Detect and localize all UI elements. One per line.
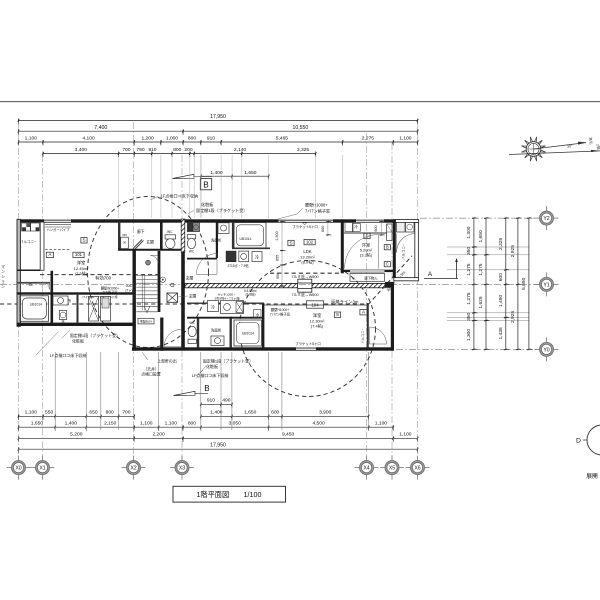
fire line circle left xyxy=(88,197,209,348)
svg-text:(7.4帖): (7.4帖) xyxy=(311,323,324,329)
svg-text:展開: 展開 xyxy=(586,473,598,480)
balcony 104 xyxy=(361,327,387,344)
svg-text:点検口設置: 点検口設置 xyxy=(141,372,161,377)
bath 104 xyxy=(234,320,262,346)
grid centerlines X xyxy=(19,122,418,459)
svg-text:洗面所: 洗面所 xyxy=(211,238,222,243)
svg-text:固定棚1段（ブラケット受）: 固定棚1段（ブラケット受） xyxy=(203,358,253,364)
svg-text:ブラケット5ヶ口: ブラケット5ヶ口 xyxy=(292,224,318,229)
section arrow B bottom xyxy=(174,391,209,395)
bottom dimension rowC xyxy=(18,432,419,442)
kitchen 101 lower xyxy=(160,277,188,302)
entry 102 xyxy=(186,254,217,281)
label senmenjo 102 xyxy=(211,238,222,243)
section mark B bottom xyxy=(204,384,210,393)
svg-text:790: 790 xyxy=(136,147,144,153)
svg-text:650: 650 xyxy=(89,410,97,416)
svg-text:1,100: 1,100 xyxy=(140,421,153,427)
svg-text:1,650: 1,650 xyxy=(31,421,44,427)
svg-text:2,325: 2,325 xyxy=(498,238,504,251)
svg-text:上部軒の出: 上部軒の出 xyxy=(157,359,177,364)
fridge 104b xyxy=(254,310,262,318)
svg-text:固定棚1段（ブラケット受）: 固定棚1段（ブラケット受） xyxy=(70,332,120,338)
svg-text:700: 700 xyxy=(122,147,130,153)
callout hatch top-center xyxy=(150,193,247,214)
room 101 labels xyxy=(46,238,89,276)
svg-text:B: B xyxy=(203,181,209,190)
svg-text:800: 800 xyxy=(173,147,181,153)
svg-text:B: B xyxy=(204,384,210,393)
svg-text:1,275: 1,275 xyxy=(478,263,484,276)
svg-text:2,150: 2,150 xyxy=(104,421,117,427)
svg-text:9,450: 9,450 xyxy=(282,432,295,438)
svg-text:バルコニ−: バルコニ− xyxy=(361,328,365,343)
svg-text:(7ヶ)200 ・7ミ4・7 5ヶ施: (7ヶ)200 ・7ミ4・7 5ヶ施 xyxy=(82,294,117,299)
svg-text:(7ヶ): (7ヶ) xyxy=(125,289,132,293)
svg-text:延焼ライン3m: 延焼ライン3m xyxy=(331,299,359,306)
svg-text:1,300: 1,300 xyxy=(466,226,472,239)
toilet 101 xyxy=(165,230,175,249)
top dimension row4 xyxy=(42,147,316,157)
svg-text:固定棚1段（ブラケット受）: 固定棚1段（ブラケット受） xyxy=(196,207,247,213)
svg-text:1,100: 1,100 xyxy=(25,136,38,142)
callouts bottom-left xyxy=(36,330,120,358)
svg-text:宅配BOX: 宅配BOX xyxy=(140,319,152,324)
svg-text:ン: ン xyxy=(1,270,5,274)
svg-text:7ルミ庇→W600: 7ルミ庇→W600 xyxy=(291,292,318,297)
svg-text:C: C xyxy=(386,262,389,267)
svg-text:(3.2帖): (3.2帖) xyxy=(360,252,373,258)
svg-text:1,200: 1,200 xyxy=(141,136,154,142)
bottom dimension rowA right xyxy=(200,410,369,420)
neighbour text xyxy=(1,264,5,289)
section mark B top xyxy=(200,179,211,190)
svg-text:600: 600 xyxy=(321,226,325,232)
svg-text:5,465: 5,465 xyxy=(276,136,289,142)
svg-text:X2: X2 xyxy=(130,466,136,472)
svg-text:950: 950 xyxy=(276,273,280,279)
callout 104 hatch xyxy=(192,366,229,378)
svg-text:3,400: 3,400 xyxy=(75,147,88,153)
svg-text:7バ7ン格子窓: 7バ7ン格子窓 xyxy=(305,208,330,214)
svg-text:LDK: LDK xyxy=(303,249,311,254)
label tenkai xyxy=(586,473,598,480)
svg-text:洗面所: 洗面所 xyxy=(211,328,222,333)
svg-text:1,650: 1,650 xyxy=(244,410,257,416)
svg-text:2列3列4・7 5ヶ施: 2列3列4・7 5ヶ施 xyxy=(215,295,240,300)
right dim chain1 xyxy=(466,217,477,350)
svg-text:冷: 冷 xyxy=(256,312,260,317)
svg-text:600: 600 xyxy=(374,225,378,231)
drawing frame top border line xyxy=(0,101,600,103)
svg-text:2,200: 2,200 xyxy=(152,432,165,438)
balcony label 101 xyxy=(20,240,36,244)
door arc 104 entry xyxy=(164,329,182,347)
svg-text:WC: WC xyxy=(189,321,195,325)
svg-text:1,100: 1,100 xyxy=(25,410,38,416)
svg-text:1,625: 1,625 xyxy=(478,296,484,309)
staircase xyxy=(136,256,158,313)
svg-text:化粧板: 化粧板 xyxy=(72,337,84,343)
svg-text:7ルミ庇→W600: 7ルミ庇→W600 xyxy=(291,274,318,279)
bottom dimension 17950 xyxy=(18,442,419,452)
svg-text:700: 700 xyxy=(122,410,130,416)
toilet 104 xyxy=(188,321,196,343)
central wall xyxy=(181,219,185,349)
svg-text:Y1: Y1 xyxy=(543,283,549,289)
svg-text:5,850: 5,850 xyxy=(521,277,527,290)
svg-text:WC: WC xyxy=(189,250,195,254)
103 dim 600 xyxy=(374,221,384,236)
section arrow B top xyxy=(173,174,213,178)
svg-text:X5: X5 xyxy=(389,466,395,472)
svg-text:X0: X0 xyxy=(15,466,21,472)
svg-text:Y2: Y2 xyxy=(543,216,549,222)
svg-text:CL: CL xyxy=(352,277,356,281)
svg-text:X1: X1 xyxy=(39,466,45,472)
svg-text:10,550: 10,550 xyxy=(292,125,308,131)
svg-text:3,900: 3,900 xyxy=(319,410,332,416)
svg-text:1,000: 1,000 xyxy=(166,136,179,142)
room 102 labels xyxy=(288,224,318,265)
north arrow symbol xyxy=(509,137,600,161)
svg-text:1,300: 1,300 xyxy=(466,329,472,342)
svg-text:腰壁H1000+: 腰壁H1000+ xyxy=(271,307,289,312)
svg-text:(7.5帖): (7.5帖) xyxy=(75,270,88,276)
svg-text:1,435: 1,435 xyxy=(498,327,504,340)
svg-text:200: 200 xyxy=(184,147,192,153)
label awning xyxy=(291,274,318,279)
svg-text:D: D xyxy=(576,437,581,444)
svg-text:4,100: 4,100 xyxy=(82,136,95,142)
svg-text:A: A xyxy=(428,271,433,278)
title box xyxy=(173,486,286,502)
right dim chain5 xyxy=(521,217,532,350)
svg-text:冷: 冷 xyxy=(354,224,358,229)
bottom wall window xyxy=(296,348,316,351)
top dimension 17950 xyxy=(18,114,419,124)
svg-text:1,400: 1,400 xyxy=(65,421,78,427)
svg-text:1,650: 1,650 xyxy=(244,170,257,176)
bath 102 xyxy=(234,223,266,249)
svg-text:101: 101 xyxy=(75,252,83,257)
callouts bottom-center xyxy=(141,352,253,377)
interior walls xyxy=(17,219,396,348)
entry 101 xyxy=(121,229,154,250)
entry 104 xyxy=(189,293,197,298)
laundry dark boxes xyxy=(22,223,40,231)
svg-text:2,275: 2,275 xyxy=(362,136,375,142)
outer walls xyxy=(17,219,419,350)
svg-text:600: 600 xyxy=(271,410,279,416)
bottom extension lines xyxy=(55,352,368,430)
bottom dimension rowA left xyxy=(18,410,135,420)
right dim chain2 xyxy=(478,217,489,350)
svg-text:17,950: 17,950 xyxy=(210,442,226,448)
svg-text:2715ボ・7.9帖: 2715ボ・7.9帖 xyxy=(227,263,249,268)
svg-text:ハンガーパイプ: ハンガーパイプ xyxy=(46,227,70,232)
svg-text:UB1014: UB1014 xyxy=(242,332,254,336)
svg-text:バルコニ−: バルコニ− xyxy=(20,240,36,244)
svg-text:WC: WC xyxy=(167,230,173,234)
svg-text:910: 910 xyxy=(148,147,156,153)
svg-text:350: 350 xyxy=(466,247,472,255)
svg-text:800: 800 xyxy=(106,410,114,416)
bottom dimension rowB xyxy=(18,421,394,431)
svg-text:S: S xyxy=(336,312,339,317)
svg-text:655: 655 xyxy=(276,255,280,261)
svg-text:UB1014: UB1014 xyxy=(30,302,42,306)
svg-text:冷: 冷 xyxy=(255,255,259,260)
svg-text:廊下物入: 廊下物入 xyxy=(364,276,378,281)
svg-text:7,400: 7,400 xyxy=(94,125,107,131)
svg-text:S: S xyxy=(82,238,85,243)
top dimension 1400 1650 xyxy=(200,170,269,180)
svg-text:2,925: 2,925 xyxy=(510,311,516,324)
svg-text:1,100: 1,100 xyxy=(165,421,178,427)
svg-text:シ: シ xyxy=(1,275,5,279)
svg-text:ョ: ョ xyxy=(1,280,5,284)
svg-text:(2.8帖): (2.8帖) xyxy=(245,292,255,297)
kitchen 104 labels xyxy=(215,289,258,301)
svg-text:玄関: 玄関 xyxy=(146,239,154,244)
door arc 103 xyxy=(345,235,379,269)
kitchen 102 xyxy=(226,251,262,268)
svg-text:1F点検口⇒床下収納: 1F点検口⇒床下収納 xyxy=(161,193,199,199)
svg-text:1,275: 1,275 xyxy=(466,292,472,305)
svg-text:490: 490 xyxy=(222,398,230,404)
grid bubbles X0-X6 xyxy=(7,456,430,480)
top dimension row3 xyxy=(18,136,419,146)
svg-text:バルコニ−: バルコニ− xyxy=(402,244,406,259)
svg-text:7(7)格子窓: 7(7)格子窓 xyxy=(102,290,117,295)
101 lower annotations xyxy=(82,286,119,300)
svg-text:CL: CL xyxy=(29,283,34,287)
right dim chain4 xyxy=(510,217,521,350)
svg-text:玄関: 玄関 xyxy=(186,275,194,280)
svg-text:X6: X6 xyxy=(414,466,420,472)
svg-text:350: 350 xyxy=(466,312,472,320)
svg-text:1,100: 1,100 xyxy=(399,432,412,438)
room 103 labels xyxy=(360,233,391,267)
svg-text:1F点検口⇒床下収納: 1F点検口⇒床下収納 xyxy=(192,372,229,378)
grid bubbles Y0-Y2 and centerlines xyxy=(0,206,559,361)
svg-text:冷: 冷 xyxy=(211,305,215,310)
bottom dimension 910 490 xyxy=(200,398,233,408)
svg-text:1,300: 1,300 xyxy=(275,231,279,241)
svg-text:2,140: 2,140 xyxy=(234,147,247,153)
fire line circle right xyxy=(240,261,376,397)
svg-text:17,950: 17,950 xyxy=(210,114,226,120)
103 closet column xyxy=(387,224,392,241)
balcony 103 xyxy=(397,234,416,260)
label yuko700 xyxy=(95,274,112,281)
svg-text:Y0: Y0 xyxy=(543,348,549,354)
svg-text:B: B xyxy=(386,245,389,250)
svg-text:600: 600 xyxy=(498,273,504,281)
svg-text:玄関: 玄関 xyxy=(189,293,197,298)
svg-text:1,100: 1,100 xyxy=(399,136,412,142)
top extension lines xyxy=(119,155,343,218)
stair dims xyxy=(125,283,135,300)
fire line horizontal xyxy=(0,256,412,305)
fire line label xyxy=(307,299,359,309)
svg-text:2,925: 2,925 xyxy=(510,245,516,258)
svg-text:102: 102 xyxy=(306,240,314,245)
svg-text:X3: X3 xyxy=(179,466,185,472)
svg-text:腰壁H1000+: 腰壁H1000+ xyxy=(305,202,328,208)
svg-text:365: 365 xyxy=(122,233,127,237)
overhang dashed line xyxy=(40,273,340,274)
top wall windows xyxy=(44,220,384,225)
svg-text:S: S xyxy=(289,240,292,245)
svg-text:1,650: 1,650 xyxy=(478,230,484,243)
room 104 labels xyxy=(270,307,367,346)
svg-text:化粧板: 化粧板 xyxy=(201,201,213,207)
svg-text:800: 800 xyxy=(188,421,196,427)
toilet 102 xyxy=(187,235,195,254)
closet 101 xyxy=(45,225,71,250)
svg-text:3,325: 3,325 xyxy=(297,147,310,153)
103 closet xyxy=(350,274,385,282)
washbasin 104 xyxy=(211,328,224,346)
detail bubble D xyxy=(576,425,600,455)
svg-text:800: 800 xyxy=(188,136,196,142)
svg-text:ン: ン xyxy=(1,285,5,289)
callout window 102 xyxy=(278,202,330,220)
svg-text:有効700: 有効700 xyxy=(95,274,112,281)
hatch band screens xyxy=(291,279,318,297)
svg-text:廊下: 廊下 xyxy=(137,229,145,234)
svg-text:7バ7ン格子窓: 7バ7ン格子窓 xyxy=(270,312,291,317)
right dim chain3 xyxy=(498,217,509,350)
parcel box xyxy=(138,318,154,324)
svg-text:910: 910 xyxy=(207,136,215,142)
kitchen 104 xyxy=(208,301,244,314)
svg-text:(8.0帖): (8.0帖) xyxy=(301,258,314,264)
svg-text:550: 550 xyxy=(45,410,53,416)
svg-text:3,050: 3,050 xyxy=(229,421,242,427)
svg-text:1,490: 1,490 xyxy=(498,295,504,308)
top dimension 7400 10550 xyxy=(18,125,419,135)
right dim extension lines xyxy=(447,247,529,321)
svg-text:36: 36 xyxy=(123,241,127,245)
corridor hatched wall band xyxy=(185,283,385,287)
svg-text:1F点検口⇒床下収納: 1F点検口⇒床下収納 xyxy=(50,352,87,358)
svg-text:マ: マ xyxy=(1,264,5,269)
svg-text:1階平面図 1/100: 1階平面図 1/100 xyxy=(196,490,261,499)
svg-text:1,100: 1,100 xyxy=(375,421,388,427)
svg-text:910: 910 xyxy=(207,398,215,404)
svg-text:X4: X4 xyxy=(363,466,369,472)
102 washroom fixtures xyxy=(187,223,229,234)
svg-text:UB1014: UB1014 xyxy=(240,237,252,241)
svg-text:4,500: 4,500 xyxy=(312,421,325,427)
svg-text:ブラケット5ヶ口: ブラケット5ヶ口 xyxy=(295,341,321,346)
102 inner dims xyxy=(275,221,332,288)
svg-text:000-: 000- xyxy=(126,284,132,288)
svg-text:1,275: 1,275 xyxy=(466,263,472,276)
svg-text:5,200: 5,200 xyxy=(70,432,83,438)
101 bath rooms xyxy=(20,283,111,324)
section mark A right xyxy=(424,258,458,279)
103 fixtures xyxy=(345,223,414,233)
svg-text:化粧板: 化粧板 xyxy=(206,363,218,369)
fire line label rotated xyxy=(385,269,407,293)
